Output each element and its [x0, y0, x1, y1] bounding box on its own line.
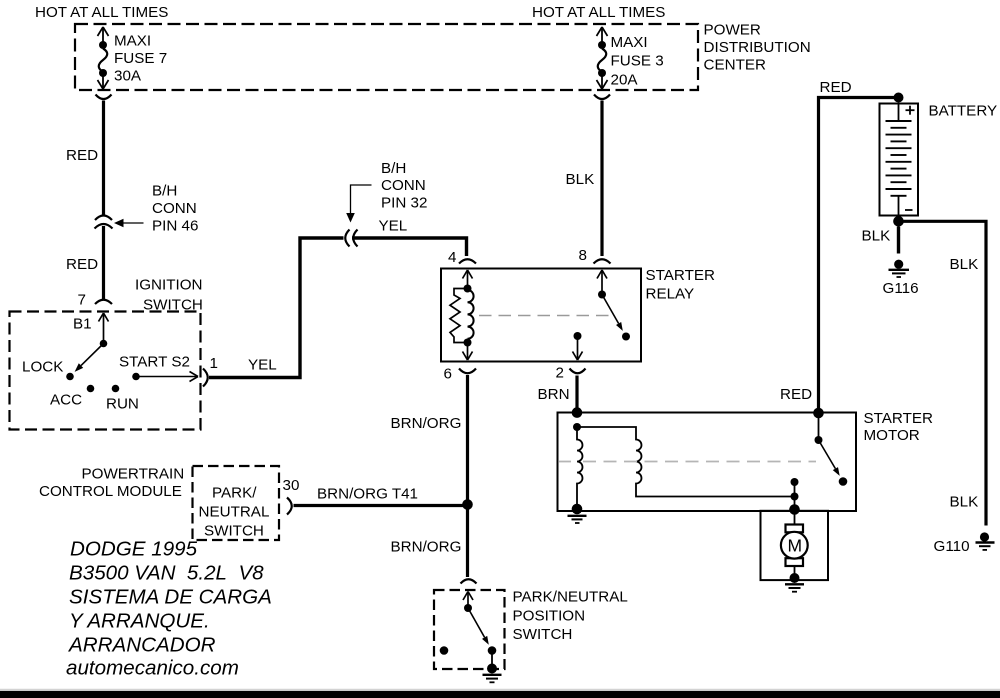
wire BRN/ORG T41 from PCM to junction: [294, 504, 465, 507]
svg-text:M: M: [788, 536, 803, 556]
wire YEL ignition to B/H conn: [209, 238, 344, 378]
svg-text:FUSE 7: FUSE 7: [114, 50, 167, 67]
ground G110: [980, 532, 989, 541]
wire RED battery to starter motor: [819, 98, 895, 414]
svg-text:BLK: BLK: [862, 228, 891, 245]
svg-text:RED: RED: [780, 386, 812, 403]
motor pivot dot: [815, 436, 823, 444]
svg-text:G110: G110: [934, 538, 970, 555]
motor field coil 1: [577, 427, 583, 506]
starter relay box: [441, 269, 641, 362]
svg-text:1: 1: [210, 355, 218, 372]
connector cup below fuse F7: [96, 95, 112, 100]
leader arrow to PIN 32: [346, 213, 355, 223]
svg-text:STARTER: STARTER: [646, 267, 716, 284]
svg-text:MAXI: MAXI: [611, 34, 648, 51]
leader arrow to PIN 46: [114, 219, 124, 228]
svg-text:YEL: YEL: [248, 357, 277, 374]
svg-text:NEUTRAL: NEUTRAL: [199, 504, 270, 521]
svg-text:SWITCH: SWITCH: [513, 626, 573, 643]
motor M circle: [781, 532, 808, 559]
svg-text:20A: 20A: [611, 72, 639, 89]
svg-text:PIN 32: PIN 32: [381, 195, 427, 212]
svg-text:7: 7: [78, 292, 86, 309]
fuse F7 (MAXI FUSE 7 30A): [98, 27, 109, 89]
motor RED junction dot: [813, 408, 824, 419]
svg-text:DODGE 1995: DODGE 1995: [70, 538, 198, 561]
svg-text:CONTROL MODULE: CONTROL MODULE: [39, 483, 182, 500]
svg-text:4: 4: [448, 249, 456, 266]
svg-text:LOCK: LOCK: [22, 359, 63, 376]
svg-text:MOTOR: MOTOR: [864, 427, 920, 444]
ground dot park/neutral: [487, 664, 497, 674]
M ground dot: [790, 573, 800, 583]
svg-text:POWERTRAIN: POWERTRAIN: [82, 466, 185, 483]
ignition switch dashed box: [10, 312, 201, 430]
svg-text:BRN/ORG: BRN/ORG: [391, 415, 462, 432]
motor field coil 2 with wire: [577, 427, 791, 497]
connector cup below fuse F3: [594, 95, 610, 100]
wire BLK battery to ground G116: [897, 227, 900, 254]
motor sub box: [761, 511, 829, 580]
in-line connector B/H CONN PIN 46: [95, 216, 112, 221]
park/neutral pin arrow: [463, 592, 468, 601]
connector cup pin 6: [459, 369, 476, 374]
svg-text:Y ARRANQUE.: Y ARRANQUE.: [69, 610, 210, 633]
relay coil resistor branch: [450, 289, 468, 343]
battery minus sign: [905, 209, 913, 211]
svg-text:BLK: BLK: [566, 171, 595, 188]
wire BLK battery to ground G110: [904, 221, 987, 525]
ground symbol park/neutral: [483, 674, 502, 676]
svg-text:B1: B1: [73, 316, 92, 333]
motor fixed contact dot: [791, 478, 799, 486]
svg-text:MAXI: MAXI: [114, 33, 151, 50]
switch arm B1 to LOCK: [81, 344, 104, 366]
relay pin 2 contact dot: [574, 332, 582, 340]
motor switch arm: [819, 440, 836, 469]
ground symbol M: [785, 583, 804, 585]
battery bottom stub: [898, 196, 900, 216]
bottom black bar: [0, 691, 1000, 698]
junction dot T41: [462, 499, 473, 510]
relay pin 6 arrow: [467, 343, 469, 360]
svg-text:CENTER: CENTER: [704, 57, 766, 74]
bottom hairline: [0, 689, 1000, 690]
relay coil inductor branch: [468, 290, 474, 339]
relay common dot: [598, 291, 606, 299]
park/neutral contact dot: [488, 646, 497, 655]
connector cup pin 7: [95, 300, 112, 304]
relay pin 2 arrow: [577, 336, 579, 359]
park/neutral switch arm: [468, 608, 485, 637]
wire contact to ground: [491, 651, 493, 669]
svg-text:PARK/: PARK/: [212, 485, 257, 502]
svg-text:8: 8: [579, 247, 587, 264]
wire BRN relay pin 2 to starter motor: [575, 376, 578, 413]
contact RUN dot: [112, 385, 120, 393]
relay mechanical link dashed: [479, 315, 613, 317]
svg-text:POSITION: POSITION: [513, 608, 586, 625]
svg-text:BLK: BLK: [950, 494, 979, 511]
svg-text:HOT AT ALL TIMES: HOT AT ALL TIMES: [35, 4, 168, 21]
wire YEL conn to relay pin 4: [352, 238, 467, 256]
relay NO contact dot: [622, 333, 630, 341]
motor ground dot left: [572, 504, 583, 515]
svg-text:ARRANCADOR: ARRANCADOR: [67, 633, 216, 656]
wire contact to M: [794, 482, 796, 525]
park/neutral position switch dashed box: [434, 590, 505, 669]
relay switch arm: [602, 295, 619, 324]
svg-text:2: 2: [556, 365, 564, 382]
battery plates: [886, 121, 912, 196]
relay pin 4 arrow: [463, 270, 468, 279]
contact ACC dot: [87, 385, 95, 393]
junction dot coil2/contact: [791, 493, 799, 501]
connector cup pin 2: [570, 369, 586, 374]
svg-text:30A: 30A: [114, 68, 142, 85]
svg-text:RED: RED: [820, 79, 852, 96]
wire BLK fuse 3 to relay pin 8: [600, 101, 603, 257]
svg-text:BATTERY: BATTERY: [929, 103, 998, 120]
motor mechanical link dashed: [559, 461, 571, 463]
svg-text:B/H: B/H: [152, 183, 177, 200]
svg-text:YEL: YEL: [379, 218, 408, 235]
svg-text:SWITCH: SWITCH: [143, 297, 203, 314]
svg-text:B3500 VAN 5.2L V8: B3500 VAN 5.2L V8: [69, 562, 264, 585]
svg-text:BRN: BRN: [538, 386, 570, 403]
battery top dot: [894, 93, 904, 103]
svg-text:BRN/ORG: BRN/ORG: [391, 539, 462, 556]
relay coil top dot: [464, 285, 472, 293]
svg-text:HOT AT ALL TIMES: HOT AT ALL TIMES: [532, 4, 665, 21]
node B1 dot: [100, 340, 108, 348]
motor arm contact dot: [839, 477, 848, 486]
wire through M: [794, 525, 796, 577]
motor BRN junction dot: [572, 407, 583, 418]
svg-text:ACC: ACC: [50, 392, 82, 409]
svg-text:START S2: START S2: [119, 354, 190, 371]
svg-text:BLK: BLK: [950, 256, 979, 273]
arm START to pin 1: [136, 376, 197, 378]
svg-text:IGNITION: IGNITION: [135, 277, 203, 294]
wire BRN/ORG relay pin 6 to T41 junction: [466, 375, 469, 501]
contact START dot: [132, 373, 140, 381]
M brush bottom: [786, 558, 804, 566]
svg-text:STARTER: STARTER: [864, 410, 934, 427]
svg-text:G116: G116: [883, 280, 919, 297]
svg-text:PIN 46: PIN 46: [152, 218, 198, 235]
svg-text:BRN/ORG T41: BRN/ORG T41: [317, 486, 418, 503]
connector cup pin 4: [459, 259, 476, 263]
svg-text:RED: RED: [66, 256, 98, 273]
svg-text:SWITCH: SWITCH: [204, 523, 264, 540]
battery plus sign: [906, 109, 915, 111]
ground G116: [894, 260, 903, 269]
svg-text:CONN: CONN: [381, 177, 426, 194]
park/neutral switch (PCM) dashed box: [193, 466, 280, 540]
svg-text:RELAY: RELAY: [646, 286, 695, 303]
svg-text:6: 6: [444, 366, 452, 383]
svg-text:DISTRIBUTION: DISTRIBUTION: [704, 39, 811, 56]
svg-text:CONN: CONN: [152, 200, 197, 217]
connector cup pin 30: [287, 498, 292, 515]
svg-text:RUN: RUN: [106, 396, 139, 413]
connector cup park/neutral switch: [461, 579, 477, 583]
bottom edge junction dot: [789, 504, 800, 515]
power distribution center dashed box: [75, 24, 698, 90]
fuse F3 (MAXI FUSE 3 20A): [597, 27, 608, 89]
svg-text:PARK/NEUTRAL: PARK/NEUTRAL: [513, 589, 628, 606]
connector cup pin 8: [594, 259, 611, 263]
in-line connector B/H CONN PIN 32: [345, 230, 349, 247]
svg-text:FUSE 3: FUSE 3: [611, 53, 664, 70]
svg-text:POWER: POWER: [704, 22, 761, 39]
connector cup pin 1: [203, 369, 208, 387]
park/neutral pivot dot: [464, 604, 472, 612]
battery bottom dot: [893, 216, 904, 227]
ignition pin B1 arrow: [99, 313, 104, 322]
wire RED from fuse 7 down to connector: [102, 101, 105, 217]
svg-text:30: 30: [283, 477, 300, 494]
starter motor box: [558, 413, 857, 512]
wire BRN/ORG junction to park/neutral position switch: [466, 508, 469, 577]
relay coil bottom dot: [464, 339, 472, 347]
svg-text:automecanico.com: automecanico.com: [66, 657, 239, 680]
M brush top: [786, 525, 804, 533]
battery box: [880, 104, 919, 216]
park/neutral left contact dot: [440, 646, 449, 655]
relay pin 8 arrow: [597, 270, 602, 279]
wire RED from connector to ignition switch pin 7: [102, 226, 105, 299]
motor switch pivot stub: [818, 413, 820, 440]
motor inner node dot: [573, 423, 581, 431]
svg-text:SISTEMA DE CARGA: SISTEMA DE CARGA: [69, 586, 272, 609]
ground symbol motor left: [568, 515, 587, 517]
svg-text:B/H: B/H: [381, 160, 406, 177]
battery top stub: [898, 104, 900, 122]
svg-text:RED: RED: [66, 147, 98, 164]
contact LOCK dot: [66, 373, 74, 381]
